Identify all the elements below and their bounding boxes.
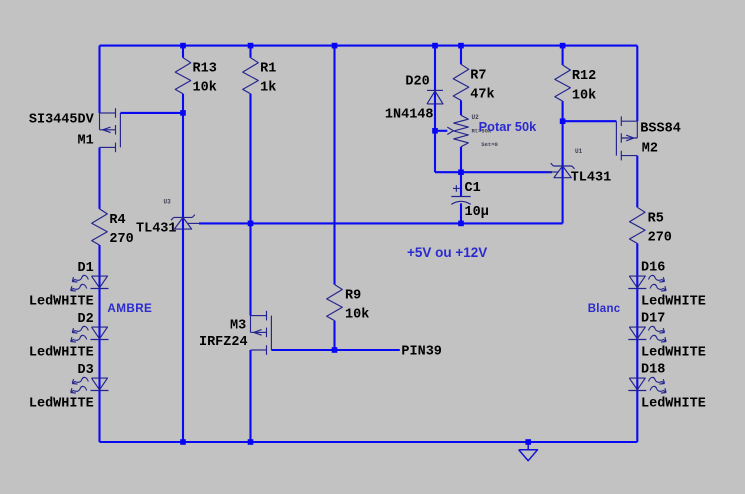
svg-text:10k: 10k bbox=[572, 88, 596, 103]
wire M3 source to bottom rail bbox=[249, 350, 251, 442]
wire R7 to potentiometer bbox=[460, 100, 462, 115]
svg-text:R9: R9 bbox=[345, 289, 361, 304]
node M3 source bottom rail bbox=[248, 439, 254, 445]
wiper arrow of potentiometer bbox=[435, 130, 447, 132]
wire mid reference rail bbox=[199, 222, 563, 224]
svg-text:R12: R12 bbox=[572, 69, 596, 84]
LED D18 LedWHITE bbox=[629, 378, 645, 390]
wire D20 anode down to ref wire bbox=[434, 104, 436, 172]
wire pot bottom through C1 node bbox=[460, 147, 462, 197]
LED D2 LedWHITE bbox=[92, 327, 108, 339]
node potentiometer wiper tap bbox=[432, 128, 438, 134]
node ground junction bbox=[525, 439, 531, 445]
wire left column from rail to M1 source bbox=[98, 46, 100, 113]
svg-text:LedWHITE: LedWHITE bbox=[641, 397, 706, 412]
svg-text:10µ: 10µ bbox=[465, 205, 489, 220]
node U3 anode bottom rail bbox=[180, 439, 186, 445]
svg-text:LedWHITE: LedWHITE bbox=[641, 346, 706, 361]
node R9 bottom gate wire bbox=[332, 347, 338, 353]
svg-text:R7: R7 bbox=[470, 68, 486, 83]
svg-text:D3: D3 bbox=[77, 363, 93, 378]
svg-text:1N4148: 1N4148 bbox=[385, 108, 434, 123]
svg-text:Blanc: Blanc bbox=[588, 303, 621, 315]
node top rail R12 bbox=[560, 43, 566, 49]
wire gate node to M2 gate bar bbox=[563, 120, 617, 122]
svg-text:AMBRE: AMBRE bbox=[107, 302, 152, 315]
svg-text:M1: M1 bbox=[77, 134, 93, 149]
wire R4 to D1 bbox=[98, 245, 100, 288]
wire top supply rail bbox=[100, 45, 638, 47]
svg-text:LedWHITE: LedWHITE bbox=[29, 346, 94, 361]
svg-text:R5: R5 bbox=[648, 211, 664, 226]
node R12 M2 gate bbox=[560, 118, 566, 124]
wire D17 to D18 bbox=[636, 340, 638, 391]
svg-text:R4: R4 bbox=[109, 213, 125, 228]
svg-text:D16: D16 bbox=[641, 261, 665, 276]
node R1 column mid wire bbox=[248, 221, 254, 227]
resistor R4 bbox=[92, 209, 108, 245]
svg-text:Set=0: Set=0 bbox=[481, 141, 498, 148]
wire D18 to bottom rail bbox=[636, 391, 638, 443]
wire top rail corner to M2 source bbox=[636, 46, 638, 122]
svg-text:D17: D17 bbox=[641, 312, 665, 327]
wire bottom ground rail bbox=[100, 441, 638, 443]
wire M1 gate to R13 node bbox=[120, 112, 183, 114]
wire R12 to U1 cathode bbox=[562, 101, 564, 179]
svg-text:TL431: TL431 bbox=[571, 170, 612, 185]
svg-text:1k: 1k bbox=[260, 81, 276, 96]
LED D3 LedWHITE bbox=[92, 378, 108, 390]
svg-text:10k: 10k bbox=[345, 308, 369, 323]
svg-text:M3: M3 bbox=[230, 318, 246, 333]
node ref wire R7 column bbox=[458, 169, 464, 175]
svg-text:D20: D20 bbox=[405, 75, 429, 90]
svg-text:TL431: TL431 bbox=[136, 222, 177, 237]
svg-text:D1: D1 bbox=[77, 261, 93, 276]
node top rail R9 column bbox=[332, 43, 338, 49]
svg-text:IRFZ24: IRFZ24 bbox=[199, 335, 248, 350]
node M1 gate / R13 junction bbox=[180, 110, 186, 116]
wire M2 drain to R5 bbox=[636, 156, 638, 208]
svg-text:270: 270 bbox=[648, 231, 672, 246]
diode D20 1N4148 bbox=[427, 89, 443, 91]
wire D16 to D17 bbox=[636, 289, 638, 340]
svg-text:LedWHITE: LedWHITE bbox=[29, 295, 94, 310]
wire mid rail up to U1 anode bbox=[562, 179, 564, 223]
svg-text:LedWHITE: LedWHITE bbox=[641, 295, 706, 310]
svg-text:M2: M2 bbox=[642, 142, 658, 157]
wire D3 to bottom rail bbox=[98, 391, 100, 443]
LED D16 LedWHITE bbox=[629, 276, 645, 288]
transistor M1 SI3445DV (PMOS) bbox=[100, 112, 116, 114]
svg-text:BSS84: BSS84 bbox=[640, 122, 681, 137]
ground symbol bbox=[527, 444, 529, 450]
resistor R7 47k bbox=[460, 46, 462, 65]
wire U3 anode to bottom rail bbox=[182, 229, 184, 442]
wire D1 to D2 bbox=[98, 289, 100, 340]
wire C1 to mid rail bbox=[460, 203, 462, 223]
svg-text:U1: U1 bbox=[575, 148, 583, 155]
wire R13 to TL431 U3 bbox=[182, 94, 184, 229]
wire R5 to D16 bbox=[636, 243, 638, 288]
wire rail to R9 bbox=[333, 46, 335, 285]
wire D20 column to TL431 U1 ref bbox=[435, 171, 552, 173]
svg-text:C1: C1 bbox=[465, 181, 481, 196]
resistor R1 bbox=[249, 46, 251, 58]
node C1 bottom mid wire bbox=[458, 221, 464, 227]
LED D1 LedWHITE bbox=[92, 276, 108, 288]
wire R1 to M3 drain bbox=[249, 94, 251, 316]
wire M3 gate to PIN39 bbox=[271, 349, 399, 351]
svg-text:270: 270 bbox=[109, 232, 133, 247]
wire M1 drain to R4 bbox=[98, 148, 100, 209]
svg-text:+5V ou +12V: +5V ou +12V bbox=[407, 245, 487, 260]
potentiometer U2 Potar 50k bbox=[454, 115, 469, 147]
wire rail to D20 bbox=[434, 46, 436, 104]
resistor R5 270 bbox=[630, 207, 646, 243]
wire R9 to gate node bbox=[333, 321, 335, 350]
svg-text:U3: U3 bbox=[164, 199, 172, 206]
LED D17 LedWHITE bbox=[629, 327, 645, 339]
resistor R9 bbox=[327, 285, 343, 321]
transistor M2 BSS84 (PMOS) bbox=[621, 120, 637, 122]
svg-text:47k: 47k bbox=[470, 88, 494, 103]
node top rail R7 column bbox=[458, 43, 464, 49]
svg-text:LedWHITE: LedWHITE bbox=[29, 397, 94, 412]
transistor M3 IRFZ24 (NMOS) bbox=[251, 315, 267, 317]
svg-text:10k: 10k bbox=[193, 81, 217, 96]
svg-text:Potar 50k: Potar 50k bbox=[479, 119, 538, 134]
resistor R13 bbox=[182, 46, 184, 58]
svg-text:SI3445DV: SI3445DV bbox=[29, 112, 95, 127]
svg-text:R13: R13 bbox=[193, 62, 217, 77]
capacitor C1 10u polarized bbox=[451, 196, 470, 198]
node top rail D20 column bbox=[432, 43, 438, 49]
svg-text:R1: R1 bbox=[260, 62, 276, 77]
TL431 U1 shunt regulator bbox=[553, 165, 572, 167]
resistor R12 10k bbox=[562, 46, 564, 65]
svg-text:D2: D2 bbox=[77, 312, 93, 327]
svg-text:D18: D18 bbox=[641, 363, 665, 378]
TL431 U3 shunt regulator bbox=[174, 216, 193, 218]
node top rail R13 bbox=[180, 43, 186, 49]
svg-text:PIN39: PIN39 bbox=[401, 344, 442, 359]
node top rail R1 bbox=[248, 43, 254, 49]
wire D2 to D3 bbox=[98, 340, 100, 391]
